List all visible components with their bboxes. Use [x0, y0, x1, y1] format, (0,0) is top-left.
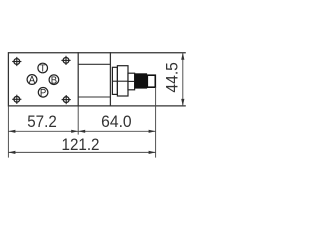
svg-text:44.5: 44.5	[163, 62, 182, 93]
extension line at divider (x=78.2)	[77, 106, 79, 134]
screw hole top-right	[61, 56, 70, 65]
port P	[38, 88, 48, 99]
svg-text:P: P	[40, 88, 47, 99]
top edge line with 44.5 extension	[8, 52, 185, 54]
svg-text:64.0: 64.0	[101, 112, 132, 131]
body inner top line	[78, 63, 110, 65]
facet line across collar and nut	[112, 80, 128, 82]
screw hole bottom-left	[12, 95, 21, 104]
svg-text:57.2: 57.2	[27, 112, 57, 131]
dimension line 64.0	[78, 130, 155, 133]
vertical dimension line 44.5	[181, 53, 184, 106]
extension line left (x=8.4)	[7, 106, 9, 157]
dimension line 57.2	[8, 130, 78, 133]
screw hole bottom-right	[62, 95, 71, 104]
port T	[38, 63, 48, 74]
bottom edge line with 44.5 extension	[8, 105, 185, 107]
body inner bottom line	[78, 96, 110, 98]
svg-text:A: A	[29, 75, 36, 86]
svg-text:121.2: 121.2	[62, 135, 100, 154]
divider plate/body	[77, 52, 79, 106]
extension line right (x=155.6)	[155, 87, 157, 157]
end knob	[147, 75, 155, 87]
stem hex nut	[117, 66, 128, 96]
stem collar	[112, 67, 117, 94]
threaded stem (solid)	[135, 73, 148, 88]
dimension line 121.2	[8, 151, 155, 154]
screw hole top-left	[12, 57, 21, 66]
port B	[49, 75, 59, 86]
body right edge	[109, 52, 111, 106]
plate left edge	[7, 52, 9, 106]
stem neck	[128, 73, 135, 90]
svg-text:T: T	[40, 64, 46, 75]
svg-text:B: B	[51, 75, 58, 86]
facet line across neck	[128, 80, 135, 82]
port A	[27, 75, 37, 87]
